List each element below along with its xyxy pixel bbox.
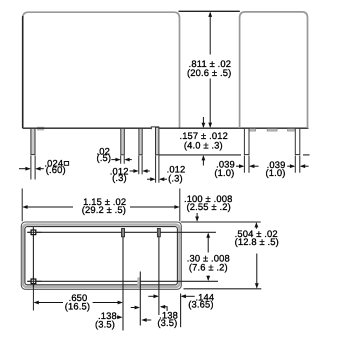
dim .504 label bbox=[235, 228, 279, 247]
dim .157 label bbox=[179, 130, 228, 150]
dim .144 arrows bbox=[148, 294, 194, 298]
pin tip reference line bbox=[159, 154, 241, 156]
svg-text:(.5): (.5) bbox=[96, 152, 111, 163]
pin slot 1 extension line bbox=[122, 229, 124, 331]
side pin 1 extension lines bbox=[244, 156, 249, 173]
hole column line bbox=[32, 227, 34, 287]
dim .30 line with arrows bbox=[206, 233, 210, 282]
relay body front view outline bbox=[23, 12, 180, 128]
pin 3 front view bbox=[139, 128, 142, 154]
dim .024 arrows bbox=[19, 167, 44, 171]
svg-text:(29.2 ± .5): (29.2 ± .5) bbox=[82, 204, 126, 215]
dim .012 first label bbox=[110, 165, 129, 183]
dim .157 lower arrow bbox=[202, 155, 206, 165]
dim .02 label bbox=[96, 146, 111, 164]
pin 2 extension lines bbox=[121, 156, 125, 164]
dim .039 second label bbox=[265, 159, 285, 178]
side pin 2 extension lines bbox=[295, 156, 300, 173]
dim .144 extension line bbox=[180, 294, 182, 328]
pin slot 2 extension line bbox=[158, 229, 160, 315]
dim .650 label bbox=[65, 292, 90, 311]
bottom edge reference line right of bottom view bbox=[184, 288, 262, 290]
standoff tab under front view bbox=[37, 127, 44, 131]
dim .138 first arrows bbox=[117, 315, 151, 322]
dim 1.15 label bbox=[82, 196, 127, 215]
dim 1.15 extension lines bbox=[22, 189, 180, 222]
pin 2 front view bbox=[121, 128, 125, 154]
side view standoff tabs bbox=[248, 129, 297, 131]
pin slot 2 bottom view bbox=[157, 229, 160, 237]
top reference line between views bbox=[179, 10, 240, 12]
hole 1 square bbox=[31, 230, 36, 235]
dim .039 second arrows bbox=[287, 164, 308, 168]
svg-text:(16.5): (16.5) bbox=[65, 300, 90, 311]
pin 3 extension lines bbox=[139, 156, 142, 175]
pin 4 extension lines bbox=[156, 156, 159, 183]
svg-text:(1.0): (1.0) bbox=[265, 167, 285, 178]
pin 1 front view bbox=[31, 128, 35, 154]
svg-text:(3.5): (3.5) bbox=[95, 319, 115, 330]
dim 1.15 line with arrows bbox=[22, 205, 179, 209]
seating plane line (front+side view bottom edge) bbox=[23, 127, 309, 129]
dim .024 label bbox=[44, 157, 65, 175]
dim .012 second arrows bbox=[147, 177, 167, 181]
bottom view inner outline bbox=[25, 227, 178, 285]
dim .039 first arrows bbox=[236, 164, 259, 168]
dim .012 first arrows bbox=[130, 169, 150, 173]
svg-text:(7.6 ± .2): (7.6 ± .2) bbox=[189, 262, 228, 273]
hole row reference line bbox=[27, 280, 218, 282]
relay body side view outline bbox=[240, 12, 308, 128]
svg-text:(.3): (.3) bbox=[112, 172, 127, 183]
dim .650 extension line bbox=[32, 287, 34, 310]
bottom view outer outline bbox=[21, 222, 181, 289]
top edge reference line right of bottom view bbox=[181, 221, 261, 223]
pin row reference line bbox=[27, 231, 216, 233]
dim .100 label bbox=[184, 193, 233, 212]
pin slot 1 bottom view bbox=[122, 229, 125, 237]
dim .157 upper arrow bbox=[202, 117, 206, 128]
dim .504 arrows bbox=[255, 222, 259, 289]
svg-text:(3.5): (3.5) bbox=[157, 317, 177, 328]
bottom view emboss gray band bbox=[23, 225, 179, 287]
svg-text:(3.65): (3.65) bbox=[188, 299, 213, 310]
dim .138 second arrows bbox=[131, 305, 167, 311]
dim .012 second label bbox=[167, 164, 186, 184]
dim .650 line with arrows bbox=[34, 301, 123, 305]
pin slot 3 extension line bbox=[139, 272, 141, 326]
dim .811 label bbox=[187, 58, 231, 78]
hole 2 square bbox=[31, 279, 36, 284]
svg-text:(.3): (.3) bbox=[168, 172, 183, 183]
side view pin 1 bbox=[244, 128, 249, 154]
pin slot 3 bottom view bbox=[137, 277, 140, 285]
svg-text:(1.0): (1.0) bbox=[214, 167, 234, 178]
pin 1 extension lines bbox=[31, 156, 35, 180]
dim .02 arrows bbox=[111, 158, 132, 162]
dim .138 second label bbox=[157, 309, 178, 328]
side view pin 2 bbox=[295, 128, 300, 154]
square symbol bbox=[64, 162, 68, 166]
svg-text:(.60): (.60) bbox=[46, 164, 66, 175]
svg-text:(12.8 ± .5): (12.8 ± .5) bbox=[235, 236, 279, 247]
pin 4 notch bbox=[151, 127, 159, 130]
dim .138 first label bbox=[95, 310, 117, 330]
pin 4 front view bbox=[156, 127, 159, 155]
svg-text:(4.0 ± .3): (4.0 ± .3) bbox=[184, 139, 223, 150]
dim .144 label bbox=[188, 291, 214, 309]
dim .30 label bbox=[187, 253, 230, 273]
dim .100 down arrow bbox=[195, 213, 199, 222]
svg-text:(20.6 ± .5): (20.6 ± .5) bbox=[187, 67, 231, 78]
dim .039 first label bbox=[214, 159, 235, 178]
dim .811 line with arrows bbox=[208, 12, 212, 128]
svg-text:(2.55 ± .2): (2.55 ± .2) bbox=[187, 201, 231, 212]
